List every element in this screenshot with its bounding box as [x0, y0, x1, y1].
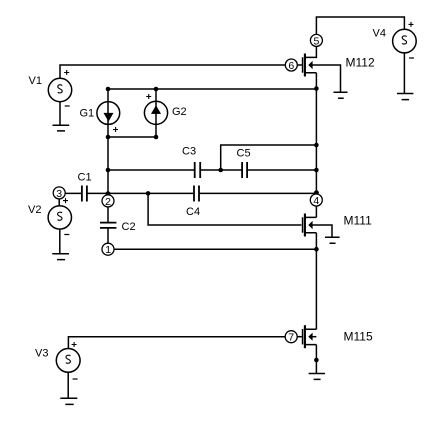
- ground below V3: [60, 398, 77, 404]
- junction M111 gate branch: [146, 191, 151, 196]
- svg-text:M111: M111: [344, 214, 373, 228]
- wire V1 top to node 6 (gate of M112): [60, 65, 286, 78]
- capacitor C5: [237, 148, 251, 179]
- transistor M115: [297, 325, 373, 348]
- ground below M115: [309, 374, 325, 380]
- junction C3/C5 midpoint: [218, 168, 223, 173]
- junction G1 bottom: [106, 135, 111, 140]
- wire C2 bottom to node 1: [107, 228, 109, 244]
- node 5: [310, 34, 322, 47]
- svg-text:C3: C3: [182, 146, 196, 158]
- wire C1 right through node2/M111-gate junctions to C4 (y=193.5): [87, 192, 193, 194]
- wire C5 bypass riser (x=220.7) and top run (y=145): [221, 145, 317, 170]
- voltage source V3: [35, 342, 80, 379]
- node 1: [102, 243, 114, 256]
- svg-text:4: 4: [313, 195, 319, 207]
- svg-text:V1: V1: [29, 75, 42, 87]
- wire M111 gate branch: [148, 193, 301, 225]
- svg-text:1: 1: [105, 244, 111, 256]
- ground below V1: [53, 125, 70, 131]
- ground at M111 bulk: [325, 237, 340, 243]
- junction G1 top: [106, 87, 111, 92]
- wire V1 bottom to ground: [59, 102, 61, 125]
- wire node4 to M111 drain: [315, 206, 317, 218]
- node 4: [310, 194, 322, 207]
- wire C3 right to C5 left (y=170): [200, 169, 242, 171]
- wire G1 bottom to G2 bottom (y=137): [108, 136, 156, 138]
- svg-text:C2: C2: [122, 221, 136, 233]
- junction node2 column at y=170: [106, 168, 111, 173]
- ground below V2: [52, 254, 69, 260]
- wire C4 right to node 4 (y=193.5): [199, 192, 316, 194]
- junction above node 2: [106, 191, 111, 196]
- junction above node 4: [314, 190, 319, 195]
- node 3: [53, 187, 65, 200]
- svg-text:G1: G1: [80, 108, 95, 120]
- svg-text:M112: M112: [346, 56, 375, 70]
- voltage source V2: [28, 198, 72, 234]
- wire node2 column to C3 (y=170): [108, 169, 194, 171]
- wire V3 top corner to node 7 (y=336.7): [68, 337, 285, 349]
- wire node 3 to C1 (y=193.5): [65, 192, 81, 194]
- node 7: [285, 331, 297, 344]
- svg-text:C1: C1: [78, 172, 92, 184]
- voltage source V4: [373, 22, 417, 58]
- capacitor C2: [100, 221, 136, 233]
- svg-text:C5: C5: [237, 148, 251, 160]
- current source G2: [144, 94, 186, 124]
- wire C5 right to main column (y=170): [247, 169, 316, 171]
- svg-text:V2: V2: [28, 204, 41, 216]
- current source G1: [80, 102, 120, 132]
- ground at M112 bulk: [334, 92, 348, 98]
- wire M111 source down to M115 drain: [315, 233, 317, 329]
- voltage source V1: [29, 70, 72, 106]
- wire node3 link to V2: [58, 199, 60, 206]
- wire G1 column vertical: [107, 89, 109, 222]
- svg-text:6: 6: [288, 60, 294, 72]
- junction main column at y=170: [314, 168, 319, 173]
- svg-text:3: 3: [56, 188, 62, 200]
- wire V4 bottom to ground: [403, 53, 405, 94]
- capacitor C1: [78, 172, 92, 202]
- svg-text:V3: V3: [35, 348, 48, 360]
- junction M112 source column at y=89: [314, 86, 319, 91]
- node 2: [102, 195, 114, 208]
- node 6: [285, 59, 297, 72]
- wire V2 bottom to ground: [59, 229, 61, 253]
- svg-text:7: 7: [288, 332, 294, 344]
- capacitor C4: [186, 186, 200, 219]
- junction G2 bottom: [154, 135, 159, 140]
- wire G2 column vertical: [155, 89, 157, 137]
- junction M111 source / node1 line: [314, 247, 319, 252]
- junction main column at y=145: [314, 143, 319, 148]
- transistor M111: [303, 214, 373, 238]
- svg-text:G2: G2: [172, 106, 187, 118]
- svg-text:M115: M115: [344, 330, 373, 344]
- junction G2 top: [154, 87, 159, 92]
- wire V3 bottom to ground: [67, 372, 69, 398]
- wire node5 to V4 (top run y=17): [316, 17, 404, 35]
- wire node A (y=89) G1/G2 tops to M112 source column: [108, 88, 316, 90]
- svg-text:5: 5: [314, 35, 320, 47]
- svg-text:2: 2: [105, 196, 111, 208]
- ground below V4: [397, 94, 413, 100]
- junction M115 source: [314, 358, 319, 363]
- wire node 1 to M111 source column (y=249.2): [114, 248, 317, 250]
- wire M115 source to ground: [315, 345, 317, 374]
- transistor M112: [297, 46, 375, 92]
- capacitor C3: [182, 146, 200, 179]
- svg-text:C4: C4: [186, 206, 200, 218]
- svg-text:V4: V4: [373, 28, 386, 40]
- wire M112 source down the main column to node 4: [315, 73, 317, 195]
